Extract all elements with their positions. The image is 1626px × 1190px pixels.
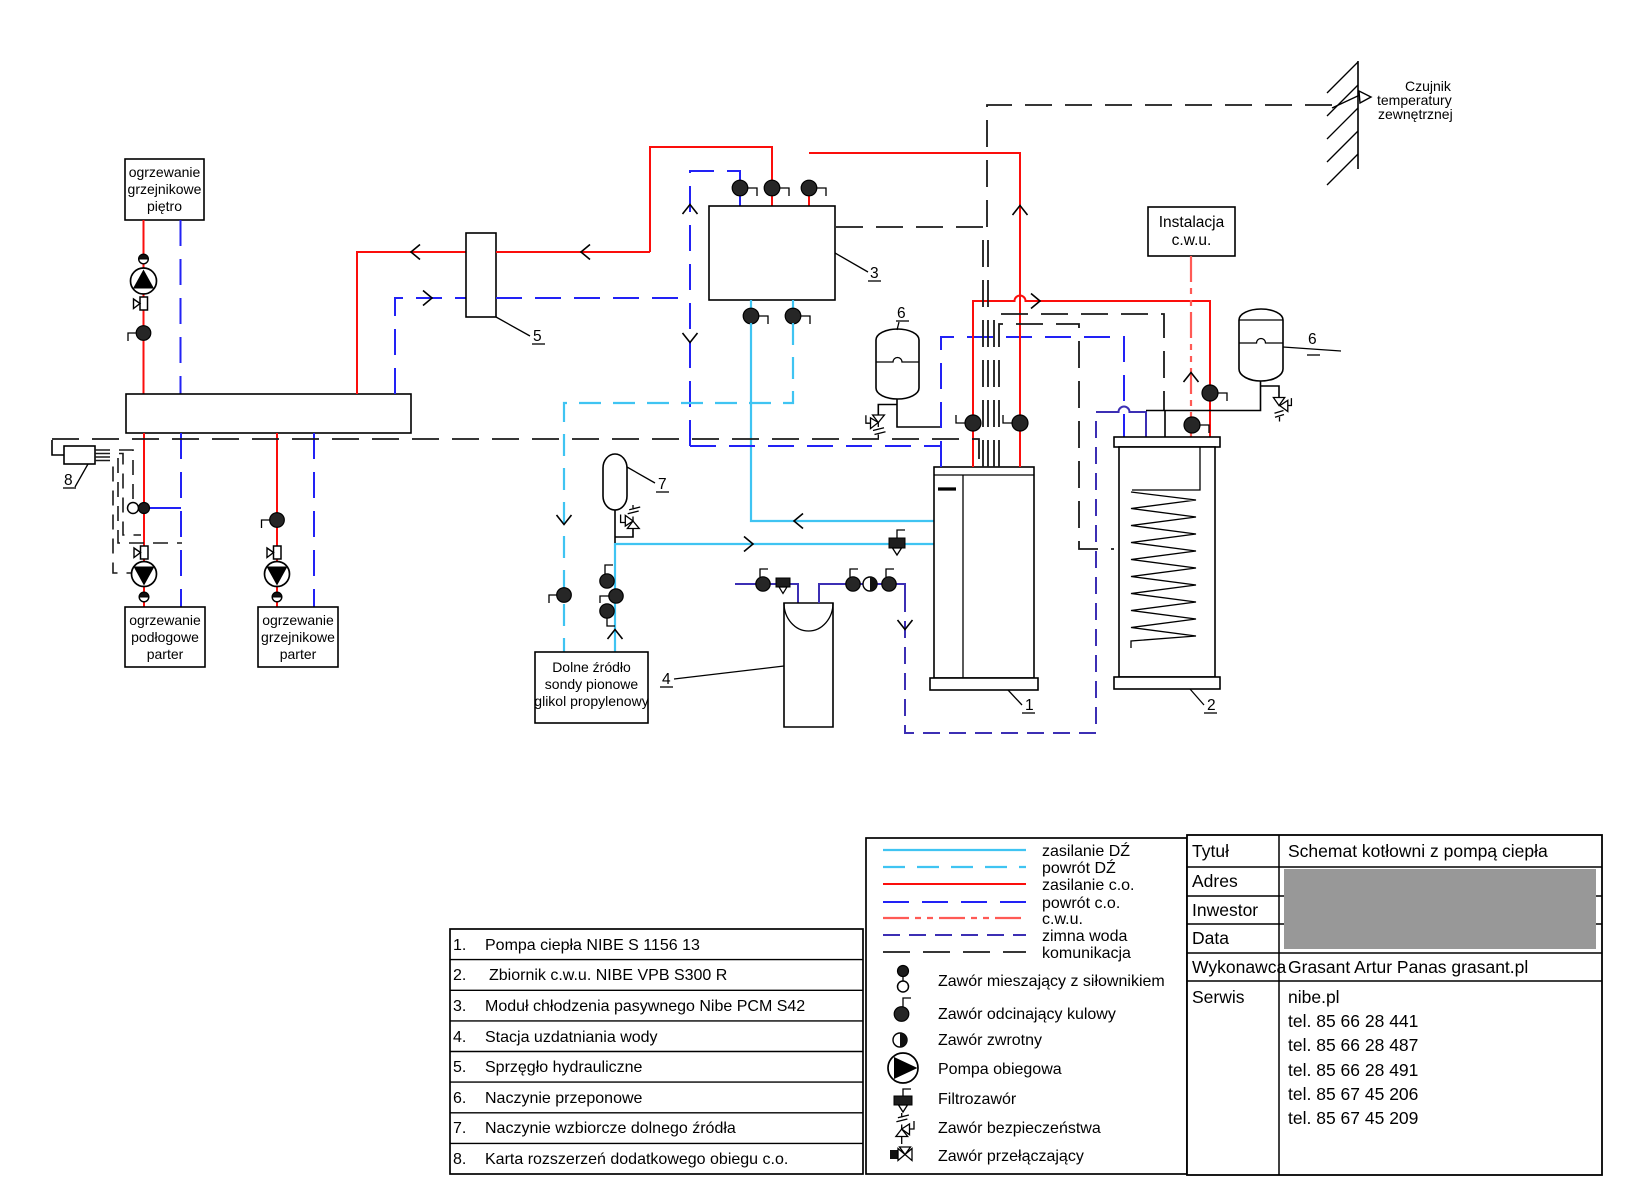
legend line: komunikacja: [883, 951, 1026, 953]
wire: vessel 6a connection: [878, 399, 941, 427]
wire: powrot c.o. manifold to sprzeglo (blue): [395, 298, 466, 394]
svg-text:4: 4: [662, 671, 671, 688]
svg-text:nibe.pl: nibe.pl: [1288, 987, 1340, 1007]
svg-text:1.: 1.: [453, 937, 466, 954]
arrow on red at (414,252): [411, 245, 420, 260]
flap check valve podlogowe: [134, 546, 148, 559]
svg-text:Serwis: Serwis: [1192, 987, 1245, 1007]
cable: card to pump P2: [95, 461, 131, 574]
arrow up on cyan at (615,632): [608, 630, 623, 640]
arrow down on zimna woda at (905,627): [898, 620, 913, 630]
safety valve at vessel 6a: [866, 415, 886, 439]
ball valve on tank inlet: [1202, 385, 1227, 401]
svg-text:zewnętrznej: zewnętrznej: [1378, 106, 1453, 122]
wire: zimna woda to tank (indigo, hop over blue): [1096, 407, 1146, 437]
check valve (small) podlogowe: [139, 592, 149, 602]
svg-text:Inwestor: Inwestor: [1192, 900, 1258, 920]
arrow on red at (584,252): [581, 245, 590, 260]
legend line: zasilanie c.o.: [883, 883, 1026, 885]
wire: zasilanie c.o. HP riser (red): [809, 153, 1020, 467]
ball valve on pietro riser: [128, 326, 151, 341]
ball valve on charge line: [956, 415, 981, 431]
wire: zasilanie DZ borehole to HP (cyan solid): [615, 544, 934, 652]
svg-text:tel. 85 66 28 441: tel. 85 66 28 441: [1288, 1011, 1418, 1031]
svg-text:c.w.u.: c.w.u.: [1172, 232, 1212, 249]
arrow up on blue at (690,207): [683, 205, 698, 215]
svg-text:grzejnikowe: grzejnikowe: [128, 181, 202, 197]
legend symbol: circulation pump: [888, 1053, 1062, 1083]
svg-text:Zawór bezpieczeństwa: Zawór bezpieczeństwa: [938, 1120, 1101, 1137]
passive cooling module U3 (NIBE PCM): [709, 206, 835, 300]
mixing valve with actuator on podlogowe circuit: [128, 503, 182, 514]
controller card U8 (karta rozszerzen): [64, 446, 95, 464]
pump P2 podlogowe (down): [132, 562, 157, 587]
safety valve at vessel 6b: [1273, 398, 1291, 422]
ball valve treated water 1: [846, 569, 860, 591]
wire: powrot c.o. parter podlogowe (blue dashed): [180, 433, 182, 607]
ball valve on zasilanie DZ (upper): [600, 565, 614, 588]
wire: zasilanie c.o. PCM to sprzeglo (red): [496, 251, 650, 253]
wire: zasilanie c.o. parter podlogowe (red): [143, 433, 145, 607]
label 6a: [896, 305, 909, 330]
node: box "Dolne zrodlo": [534, 652, 648, 723]
arrow up on c.w.u. at (1191,375): [1184, 373, 1199, 383]
svg-text:Stacja uzdatniania wody: Stacja uzdatniania wody: [485, 1029, 658, 1046]
legend line: powrot c.o.: [883, 901, 1026, 903]
svg-text:8.: 8.: [453, 1151, 466, 1168]
ball valve on red riser: [1003, 415, 1028, 431]
svg-text:Grasant Artur Panas grasant.pl: Grasant Artur Panas grasant.pl: [1288, 957, 1528, 977]
svg-text:tel. 85 66 28 487: tel. 85 66 28 487: [1288, 1035, 1418, 1055]
pump P1 pietro (circulation pump, up): [131, 268, 157, 294]
label: Czujnik temperatury zewnetrznej: [1377, 78, 1453, 122]
wire: zimna woda outlet right (indigo): [819, 584, 905, 603]
wire: vessel 6b to tank: [1146, 381, 1279, 437]
svg-text:Zawór mieszający z siłownikiem: Zawór mieszający z siłownikiem: [938, 973, 1165, 990]
legend line: c.w.u.: [883, 917, 1026, 919]
svg-text:1: 1: [1025, 697, 1034, 714]
check valve treated water: [863, 577, 877, 591]
safety valve at vessel 7: [621, 505, 641, 529]
ball valve treated water 2: [882, 569, 896, 591]
cable: main komunikacja bus: [52, 439, 979, 467]
ball valve cold water inlet: [756, 569, 770, 591]
svg-text:Data: Data: [1192, 928, 1229, 948]
heat pump U1 (NIBE S1156): [930, 467, 1038, 690]
cable: card to mixing valve actuator: [95, 450, 133, 502]
ball valve on powrot DZ: [549, 588, 571, 603]
pump P3 grzejnikowe parter (down): [265, 562, 290, 587]
svg-text:Sprzęgło hydrauliczne: Sprzęgło hydrauliczne: [485, 1059, 643, 1076]
ball valve PCM top right (red): [801, 180, 826, 206]
label 7 callout: [627, 467, 669, 493]
svg-text:Instalacja: Instalacja: [1159, 214, 1225, 231]
svg-text:3.: 3.: [453, 998, 466, 1015]
svg-text:Zbiornik c.w.u. NIBE VPB S300: Zbiornik c.w.u. NIBE VPB S300 R: [489, 967, 727, 984]
arrow up on red at (1020,208): [1013, 206, 1028, 216]
cable: HP to tank top sensor: [994, 314, 1164, 467]
legend symbol: ball valve: [894, 998, 1116, 1023]
wire: zasilanie DZ PCM drop (cyan solid): [751, 323, 934, 521]
node: box "ogrzewanie grzejnikowe parter": [258, 607, 338, 667]
cable: HP drop of sensor line: [987, 227, 989, 467]
node: manifold (rozdzielacz): [126, 394, 411, 433]
cable: outdoor sensor line: [987, 105, 1333, 227]
svg-text:Wykonawca: Wykonawca: [1192, 957, 1286, 977]
svg-text:Schemat kotłowni z pompą ciepł: Schemat kotłowni z pompą ciepła: [1288, 841, 1548, 861]
svg-text:podłogowe: podłogowe: [131, 629, 199, 645]
arrow right on cyan at (750,544): [744, 537, 753, 552]
node: box "Instalacja c.w.u.": [1148, 207, 1235, 256]
legend symbol: check valve: [893, 1032, 1042, 1049]
svg-text:piętro: piętro: [147, 198, 182, 214]
wire: powrot c.o. junction to HP (blue dashed): [690, 445, 941, 447]
svg-text:7.: 7.: [453, 1120, 466, 1137]
arrow on blue at (429,298): [423, 291, 432, 306]
wire: zasilanie c.o. pietro (red riser): [143, 220, 145, 394]
wire: powrot c.o. HP to tank loop (blue dashed): [941, 337, 1124, 467]
DHW tank U2 (NIBE VPB): [1114, 437, 1220, 689]
svg-text:ogrzewanie: ogrzewanie: [129, 612, 201, 628]
svg-text:8: 8: [64, 472, 73, 489]
svg-text:sondy pionowe: sondy pionowe: [545, 676, 639, 692]
svg-text:6.: 6.: [453, 1090, 466, 1107]
outdoor temperature sensor: [1332, 91, 1371, 108]
svg-text:Pompa ciepła NIBE S 1156 13: Pompa ciepła NIBE S 1156 13: [485, 937, 700, 954]
arrow down on blue at (690,340): [683, 333, 698, 343]
svg-text:zasilanie DŹ: zasilanie DŹ: [1042, 841, 1130, 860]
label 8 callout: [63, 464, 88, 489]
svg-text:Tytuł: Tytuł: [1192, 841, 1229, 861]
svg-text:Dolne źródło: Dolne źródło: [552, 659, 631, 675]
wire: zimna woda inlet left (indigo): [735, 584, 798, 603]
svg-text:Moduł chłodzenia pasywnego Nib: Moduł chłodzenia pasywnego Nibe PCM S42: [485, 998, 805, 1015]
arrow down on cyan dashed at (564,522): [557, 515, 572, 525]
flap check valve grzejnikowe parter: [267, 546, 281, 559]
arrow on cyan at (795,521): [794, 514, 803, 529]
cable: card to return line sensor: [95, 457, 182, 543]
svg-text:tel. 85 67 45 206: tel. 85 67 45 206: [1288, 1084, 1418, 1104]
wall with hatching: [1327, 61, 1358, 185]
redacted gray block: [1284, 869, 1596, 949]
svg-text:5: 5: [533, 328, 542, 345]
wire: zimna woda down-run (indigo dashed): [905, 412, 1096, 733]
svg-text:tel. 85 66 28 491: tel. 85 66 28 491: [1288, 1060, 1418, 1080]
wire: red riser PCM: [650, 147, 772, 252]
svg-text:zimna woda: zimna woda: [1042, 928, 1127, 945]
ball valve on zasilanie DZ (middle): [600, 589, 623, 603]
node: box "ogrzewanie grzejnikowe pietro": [125, 159, 204, 220]
wire: powrot DZ PCM to borehole (cyan dashed): [564, 323, 793, 652]
svg-text:parter: parter: [280, 646, 317, 662]
brine expansion vessel U7: [603, 454, 627, 510]
wire: blue riser to PCM: [690, 171, 740, 446]
ball valve on zasilanie DZ (lower): [600, 604, 615, 626]
arrow right on red at (1037,301): [1031, 294, 1040, 309]
hydraulic separator U5 (sprzeglo): [466, 233, 496, 317]
svg-text:6: 6: [897, 305, 906, 322]
legend line: powrot DZ: [883, 866, 1026, 868]
cable: HP to tank coil sensor: [999, 324, 1114, 549]
legend symbol: safety valve: [896, 1113, 1101, 1144]
svg-text:tel. 85 67 45 209: tel. 85 67 45 209: [1288, 1108, 1418, 1128]
svg-text:Naczynie wzbiorcze dolnego źró: Naczynie wzbiorcze dolnego źródła: [485, 1120, 736, 1137]
svg-text:zasilanie c.o.: zasilanie c.o.: [1042, 877, 1135, 894]
label 6b: [1283, 331, 1341, 355]
ball valve on c.w.u.: [1184, 417, 1209, 433]
legend symbol: filter valve: [894, 1089, 1017, 1112]
svg-text:parter: parter: [147, 646, 184, 662]
svg-text:Pompa obiegowa: Pompa obiegowa: [938, 1061, 1062, 1078]
wire: zasilanie c.o. sprzeglo to manifold (red): [357, 252, 466, 394]
svg-text:powrót DŹ: powrót DŹ: [1042, 858, 1116, 877]
svg-text:Adres: Adres: [1192, 871, 1238, 891]
ball valve PCM bottom right (cyan): [785, 300, 810, 324]
svg-text:2: 2: [1207, 697, 1216, 714]
expansion vessel U6b (naczynie przeponowe cwu): [1239, 309, 1283, 381]
cable: HP to PCM module: [835, 227, 983, 467]
label 1 callout: [1008, 690, 1035, 714]
label 3 callout: [835, 253, 881, 282]
ball valve PCM top left (blue): [732, 180, 757, 206]
svg-text:4.: 4.: [453, 1029, 466, 1046]
legend line: zimna woda: [883, 934, 1026, 936]
label 4 callout: [660, 666, 784, 688]
svg-text:Zawór zwrotny: Zawór zwrotny: [938, 1032, 1042, 1049]
legend symbol: diverter valve: [890, 1147, 1084, 1165]
filter valve on DZ line at HP: [889, 530, 905, 555]
svg-text:Zawór odcinający kulowy: Zawór odcinający kulowy: [938, 1006, 1116, 1023]
wire: c.w.u. charge HP to tank (red, hop): [973, 296, 1210, 467]
wire: c.w.u. line (red dash-dot): [1190, 256, 1192, 437]
wire: powrot c.o. parter grzejnikowe (blue dashed): [313, 433, 315, 607]
check valve (small) grzejnikowe parter: [272, 592, 282, 602]
svg-text:komunikacja: komunikacja: [1042, 945, 1131, 962]
svg-text:7: 7: [658, 476, 667, 493]
label 2 callout: [1190, 689, 1217, 714]
legend line: zasilanie DZ: [883, 849, 1026, 851]
svg-text:powrót c.o.: powrót c.o.: [1042, 895, 1120, 912]
svg-text:Naczynie przeponowe: Naczynie przeponowe: [485, 1090, 643, 1107]
check valve (small) on pietro riser: [139, 254, 149, 264]
wire: powrot c.o. pietro (blue dashed riser): [180, 220, 182, 394]
wire: zasilanie c.o. parter grzejnikowe (red): [276, 433, 278, 607]
svg-text:Zawór przełączający: Zawór przełączający: [938, 1148, 1084, 1165]
wire: card connector to bus: [52, 440, 64, 455]
ball valve grzejnikowe parter: [262, 513, 285, 528]
svg-text:c.w.u.: c.w.u.: [1042, 911, 1083, 928]
label 5 callout: [496, 317, 545, 345]
svg-text:ogrzewanie: ogrzewanie: [129, 164, 201, 180]
svg-text:Filtrozawór: Filtrozawór: [938, 1091, 1017, 1108]
svg-text:ogrzewanie: ogrzewanie: [262, 612, 334, 628]
ball valve PCM top middle (red): [764, 180, 789, 206]
svg-text:5.: 5.: [453, 1059, 466, 1076]
node: box "ogrzewanie podlogowe parter": [125, 607, 205, 667]
flap check valve on pietro riser: [134, 297, 148, 310]
svg-text:6: 6: [1308, 331, 1317, 348]
svg-text:3: 3: [870, 265, 879, 282]
filter valve cold water: [776, 578, 790, 594]
wire: powrot c.o. sprzeglo to PCM junction (blue): [496, 297, 690, 299]
svg-text:Karta rozszerzeń dodatkowego o: Karta rozszerzeń dodatkowego obiegu c.o.: [485, 1151, 788, 1168]
wire: vessel 7 stem: [615, 510, 633, 543]
svg-text:grzejnikowe: grzejnikowe: [261, 629, 335, 645]
cable: card to supply sensor: [95, 454, 141, 536]
expansion vessel U6a (naczynie przeponowe): [876, 329, 919, 399]
legend symbol: mixing valve: [898, 966, 1165, 993]
water treatment station U4: [784, 603, 833, 727]
svg-text:glikol propylenowy: glikol propylenowy: [534, 693, 648, 709]
svg-text:2.: 2.: [453, 967, 466, 984]
ball valve PCM bottom left (cyan): [743, 300, 768, 324]
